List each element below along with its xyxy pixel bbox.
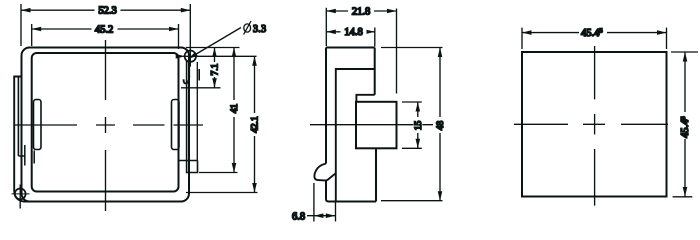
- leader arrowhead: [188, 52, 197, 59]
- dim 7.1 text: [210, 62, 219, 77]
- dim 48 reference lines: [381, 47, 443, 49]
- right slot on face: [172, 100, 180, 150]
- dim 14.8 text: [341, 26, 367, 37]
- svg-text:52.3: 52.3: [98, 6, 116, 17]
- bottom-left circle vertical tick: [19, 185, 21, 209]
- body outer rounded rect: [22, 48, 190, 202]
- cutout right dim line: [684, 52, 686, 197]
- side panel latch boot: [314, 164, 335, 181]
- right latch below top circle: [186, 61, 188, 161]
- dim 48 text: [436, 117, 445, 133]
- dim 14.8 extension line: [374, 28, 376, 47]
- side right wall upper: [374, 48, 376, 95]
- right side reference line y=192.5: [186, 192, 258, 194]
- right side reference line y=47.5: [186, 47, 240, 49]
- left tab inner line: [17, 77, 19, 156]
- right side reference line y=172.5: [199, 172, 238, 174]
- side left outer wall upper: [325, 48, 327, 164]
- right latch short line: [188, 62, 190, 75]
- dim 41 text: [230, 100, 239, 117]
- svg-text:21.8: 21.8: [352, 6, 370, 17]
- cutout square: [522, 52, 667, 197]
- mounting hole circle bottom-left: [15, 189, 26, 200]
- dim 45.2 line: [32, 28, 179, 30]
- cutout top dim line: [522, 32, 667, 34]
- vertical centerline: [105, 40, 107, 211]
- terminal block box: [356, 102, 397, 149]
- side bottom edge: [328, 201, 376, 203]
- svg-text:45.45: 45.45: [680, 116, 691, 138]
- left tab step: [18, 145, 24, 166]
- body inner rounded rect (face 45.2 x 42.1): [32, 53, 179, 192]
- side left outer wall lower: [326, 181, 329, 202]
- dim 42.1 line: [254, 56, 256, 192]
- bottom-left circle horizontal tick: [12, 193, 30, 195]
- svg-text:15: 15: [414, 121, 424, 131]
- svg-text:14.8: 14.8: [344, 27, 362, 38]
- left mounting tab: [14, 77, 30, 202]
- dim 6.8 extension lines: [313, 183, 315, 222]
- hole callout text: [244, 24, 251, 32]
- svg-text:41: 41: [230, 104, 240, 114]
- dim 45.2 text: [92, 24, 118, 35]
- dim 15 reference lines: [402, 101, 422, 103]
- svg-text:6.8: 6.8: [292, 212, 305, 223]
- dim 52.3 line: [21, 9, 190, 11]
- side body top edge: [326, 47, 375, 49]
- right side reference line through circle y=56.3: [183, 55, 257, 57]
- cutout top dim extension lines: [521, 28, 523, 49]
- cutout right dim text: [681, 112, 690, 139]
- horizontal centerline: [14, 124, 203, 126]
- dim 21.8 extension lines: [325, 8, 327, 46]
- dim 15 line: [417, 102, 419, 148]
- side horizontal centerline: [310, 124, 433, 126]
- dim 21.8 text: [348, 6, 374, 17]
- dim 52.3 extension lines: [20, 4, 22, 46]
- dim 6.8 line: [307, 215, 335, 217]
- dim 48 line: [439, 48, 441, 201]
- dim 45.2 extension lines: [31, 24, 33, 46]
- side step above terminal block: [356, 95, 374, 102]
- right tab foot: [179, 161, 198, 173]
- leader line for hole callout: [190, 28, 242, 59]
- right side reference line y=87.8: [181, 87, 221, 89]
- svg-text:3.3: 3.3: [253, 24, 266, 35]
- right latch hook: [184, 76, 190, 84]
- dim 14.8 line: [326, 31, 375, 33]
- dim 52.3 text: [95, 5, 121, 16]
- svg-text:48: 48: [436, 121, 446, 131]
- dim 41 line: [233, 48, 235, 173]
- cutout horizontal centerline: [514, 123, 668, 125]
- svg-text:42.1: 42.1: [251, 116, 261, 133]
- dim 21.8 line: [326, 10, 396, 12]
- cutout vertical centerline: [594, 46, 596, 206]
- arrow pointing at circle on horizontal reference: [176, 54, 186, 59]
- cutout right dim reference lines: [671, 51, 698, 53]
- dim 15 text: [413, 117, 422, 133]
- dim 7.1 line: [214, 48, 216, 88]
- svg-text:7.1: 7.1: [211, 63, 221, 75]
- left slot lower tab: [33, 151, 35, 164]
- dim 42.1 text: [250, 113, 259, 136]
- right tab head: [198, 69, 200, 81]
- side right wall lower: [375, 148, 377, 201]
- svg-text:45.2: 45.2: [95, 24, 113, 35]
- cutout top dim text: [579, 27, 607, 38]
- mounting hole circle top-right: [185, 51, 196, 62]
- side inner wall: [336, 69, 375, 202]
- left slot on face: [34, 100, 42, 150]
- right tab outer edge: [196, 62, 198, 161]
